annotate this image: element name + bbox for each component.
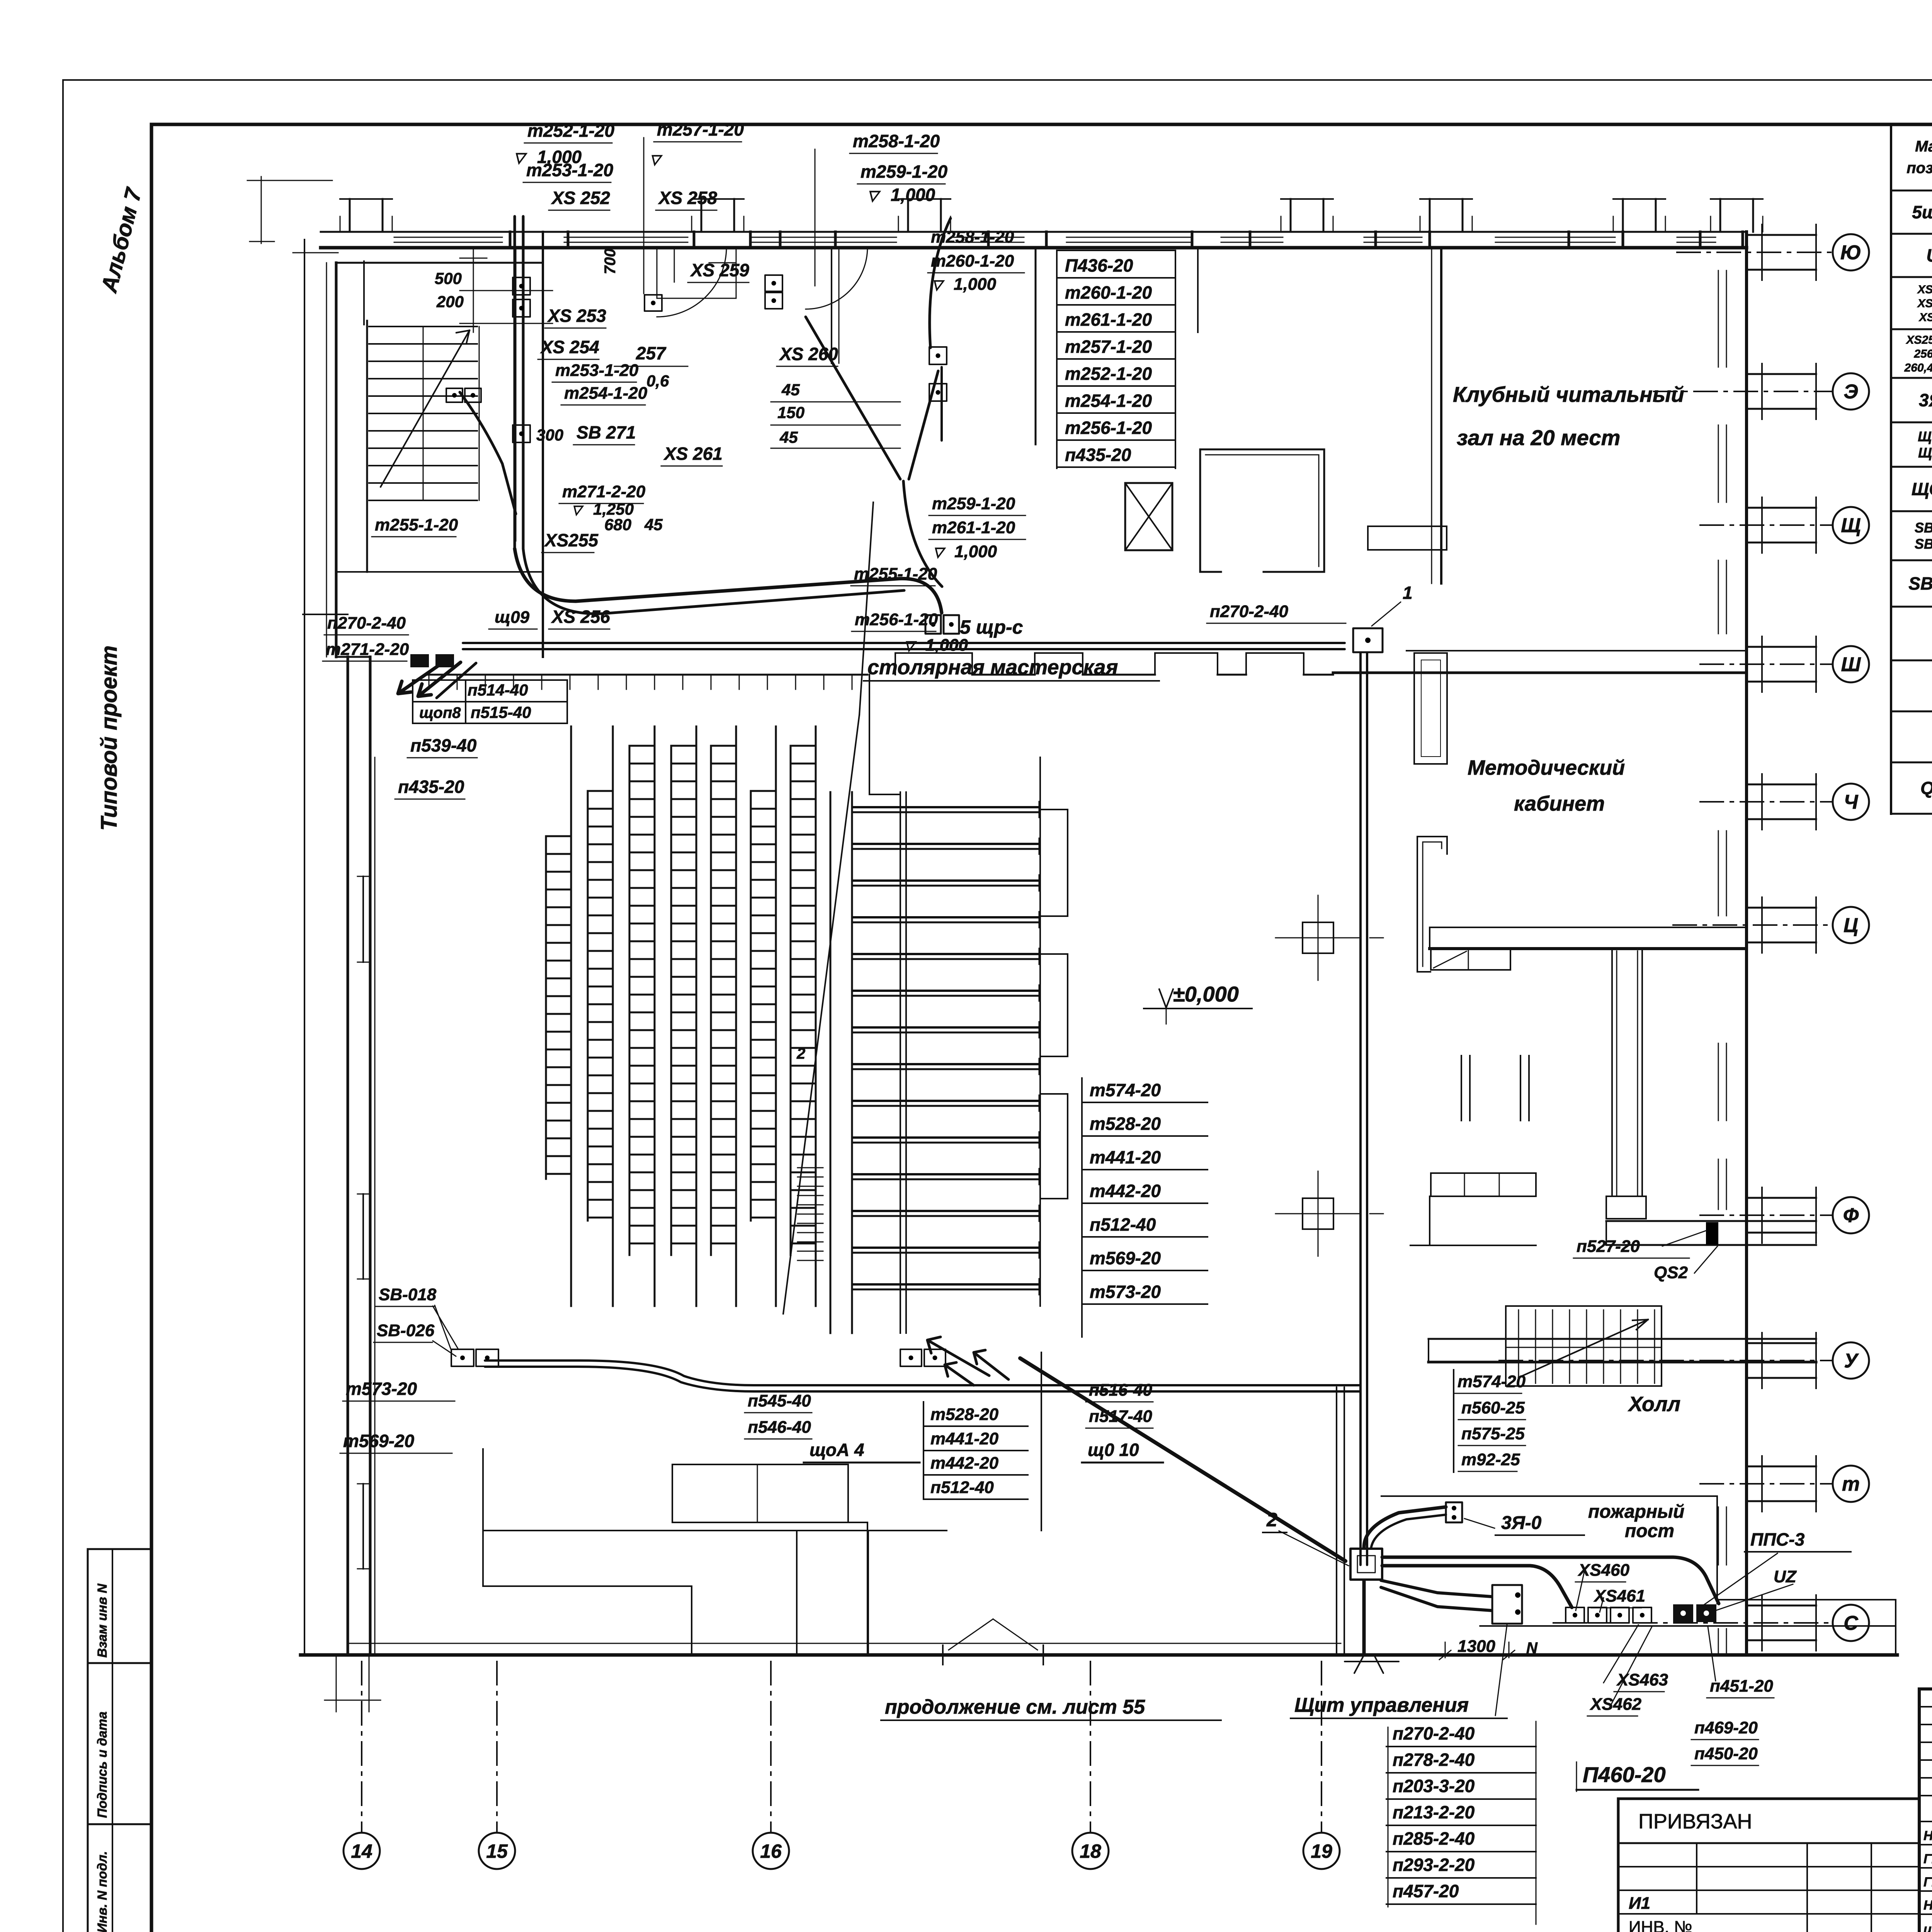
svg-text:Щит управления: Щит управления <box>1294 1694 1469 1716</box>
svg-text:п451-20: п451-20 <box>1710 1677 1773 1696</box>
svg-text:XS 253,: XS 253, <box>1917 283 1932 296</box>
svg-text:700: 700 <box>602 248 619 274</box>
svg-text:т257-1-20: т257-1-20 <box>657 119 744 139</box>
svg-text:SB-018: SB-018 <box>1915 520 1932 536</box>
svg-text:±0,000: ±0,000 <box>1173 982 1239 1006</box>
svg-text:ЩО-9,: ЩО-9, <box>1918 429 1932 444</box>
svg-text:т252-1-20: т252-1-20 <box>1065 364 1152 384</box>
svg-text:XS 252: XS 252 <box>551 188 610 208</box>
svg-text:UZ: UZ <box>1926 245 1932 265</box>
svg-text:3Я-0: 3Я-0 <box>1501 1513 1542 1533</box>
svg-text:1: 1 <box>1403 583 1413 603</box>
svg-text:ГИП: ГИП <box>1923 1852 1932 1866</box>
svg-text:257: 257 <box>636 343 667 363</box>
svg-text:т569-20: т569-20 <box>1090 1248 1161 1268</box>
svg-text:0,6: 0,6 <box>646 372 669 390</box>
svg-text:Ю: Ю <box>1840 241 1861 264</box>
svg-text:п469-20: п469-20 <box>1694 1718 1758 1737</box>
svg-text:Нач.отд.: Нач.отд. <box>1923 1828 1932 1843</box>
svg-text:т574-20: т574-20 <box>1458 1372 1526 1391</box>
svg-text:п270-2-40: п270-2-40 <box>1393 1723 1475 1743</box>
svg-text:инженер: инженер <box>1923 1922 1932 1932</box>
svg-text:п435-20: п435-20 <box>1065 445 1131 465</box>
svg-text:С: С <box>1844 1612 1859 1634</box>
svg-text:т261-1-20: т261-1-20 <box>932 518 1015 537</box>
svg-text:т569-20: т569-20 <box>343 1431 415 1451</box>
svg-text:5 щр-с: 5 щр-с <box>960 616 1023 638</box>
svg-text:ЩОА4: ЩОА4 <box>1912 479 1932 499</box>
svg-text:SB-026: SB-026 <box>377 1321 435 1340</box>
svg-text:XS 256: XS 256 <box>551 607 610 627</box>
svg-text:SB 271: SB 271 <box>577 422 636 442</box>
svg-text:Ш: Ш <box>1841 653 1861 676</box>
svg-text:XS 258: XS 258 <box>658 188 717 208</box>
svg-text:т271-2-20: т271-2-20 <box>326 640 409 659</box>
svg-text:XS460: XS460 <box>1577 1561 1630 1580</box>
svg-text:щ0 10: щ0 10 <box>1088 1440 1139 1460</box>
svg-text:п450-20: п450-20 <box>1694 1744 1758 1763</box>
svg-text:т442-20: т442-20 <box>930 1454 999 1473</box>
svg-text:ИНВ. №: ИНВ. № <box>1629 1918 1692 1932</box>
svg-text:15: 15 <box>486 1840 508 1862</box>
svg-text:ПРИВЯЗАН: ПРИВЯЗАН <box>1638 1810 1752 1833</box>
svg-text:Альбом 7: Альбом 7 <box>96 185 147 296</box>
svg-text:т252-1-20: т252-1-20 <box>527 121 614 141</box>
svg-text:Типовой проект: Типовой проект <box>97 645 122 831</box>
svg-text:Марка: Марка <box>1915 138 1932 155</box>
svg-text:п515-40: п515-40 <box>471 703 531 721</box>
svg-text:П436-20: П436-20 <box>1065 255 1133 276</box>
svg-text:300: 300 <box>536 426 563 444</box>
svg-text:щоА 4: щоА 4 <box>810 1440 864 1460</box>
svg-text:т255-1-20: т255-1-20 <box>854 565 937 583</box>
svg-text:т442-20: т442-20 <box>1090 1181 1161 1201</box>
svg-text:столярная мастерская: столярная мастерская <box>867 656 1118 679</box>
svg-text:m: m <box>1842 1473 1860 1495</box>
svg-text:п270-2-40: п270-2-40 <box>327 614 406 633</box>
svg-text:Холл: Холл <box>1628 1393 1680 1416</box>
svg-text:п517-40: п517-40 <box>1089 1407 1152 1426</box>
svg-text:260,460÷463: 260,460÷463 <box>1904 362 1932 374</box>
svg-text:Щ: Щ <box>1841 514 1861 537</box>
svg-text:45: 45 <box>644 515 663 534</box>
svg-text:XS461: XS461 <box>1593 1587 1645 1605</box>
svg-text:ППС-3: ППС-3 <box>1750 1529 1805 1549</box>
svg-text:продолжение см. лист 55: продолжение см. лист 55 <box>885 1696 1145 1718</box>
svg-text:п213-2-20: п213-2-20 <box>1393 1802 1475 1822</box>
svg-text:т258-1-20: т258-1-20 <box>853 131 940 151</box>
svg-text:XS462: XS462 <box>1589 1695 1642 1714</box>
svg-text:т92-25: т92-25 <box>1461 1450 1520 1469</box>
svg-text:т271-2-20: т271-2-20 <box>562 482 646 501</box>
svg-text:п514-40: п514-40 <box>468 681 528 699</box>
svg-text:200: 200 <box>436 293 464 311</box>
svg-text:т528-20: т528-20 <box>1090 1114 1161 1134</box>
svg-text:1,000: 1,000 <box>954 275 997 294</box>
svg-text:16: 16 <box>760 1840 782 1862</box>
svg-text:XS 254: XS 254 <box>540 337 599 357</box>
svg-text:▽: ▽ <box>933 545 946 560</box>
svg-text:п560-25: п560-25 <box>1461 1398 1525 1417</box>
svg-text:п457-20: п457-20 <box>1393 1881 1459 1901</box>
svg-text:▽: ▽ <box>932 277 945 292</box>
svg-text:т255-1-20: т255-1-20 <box>375 515 458 534</box>
svg-text:Ц: Ц <box>1844 914 1858 937</box>
svg-text:п527-20: п527-20 <box>1577 1237 1640 1256</box>
svg-text:▽: ▽ <box>514 150 527 165</box>
svg-text:пост: пост <box>1625 1521 1674 1541</box>
svg-text:п545-40: п545-40 <box>748 1391 811 1410</box>
svg-text:Ф: Ф <box>1843 1204 1859 1227</box>
svg-text:позиция: позиция <box>1906 160 1932 177</box>
svg-text:QS2: QS2 <box>1654 1263 1688 1282</box>
svg-text:Подпись и дата: Подпись и дата <box>95 1711 110 1818</box>
svg-text:т253-1-20: т253-1-20 <box>555 361 639 380</box>
svg-text:т257-1-20: т257-1-20 <box>1065 337 1152 357</box>
svg-text:680: 680 <box>604 515 631 534</box>
svg-text:п285-2-40: п285-2-40 <box>1393 1828 1475 1849</box>
svg-text:т260-1-20: т260-1-20 <box>1065 282 1152 303</box>
svg-text:SB-026: SB-026 <box>1915 536 1932 552</box>
svg-text:45: 45 <box>781 381 800 399</box>
svg-text:п546-40: п546-40 <box>748 1418 811 1437</box>
svg-text:150: 150 <box>777 403 804 422</box>
svg-text:щ09: щ09 <box>495 608 530 627</box>
svg-text:кабинет: кабинет <box>1514 792 1605 815</box>
svg-text:п512-40: п512-40 <box>930 1478 994 1497</box>
svg-text:XS 261: XS 261 <box>663 444 723 464</box>
svg-text:Методический: Методический <box>1468 756 1625 779</box>
svg-text:Нач.гр.: Нач.гр. <box>1923 1898 1932 1913</box>
svg-text:1300: 1300 <box>1458 1637 1495 1656</box>
svg-text:XS255: XS255 <box>544 530 599 550</box>
svg-text:QS2: QS2 <box>1920 778 1932 798</box>
svg-text:п435-20: п435-20 <box>398 777 464 797</box>
svg-text:▽: ▽ <box>572 503 584 517</box>
svg-text:18: 18 <box>1080 1840 1101 1862</box>
svg-text:И1: И1 <box>1629 1894 1650 1913</box>
svg-text:т258-1-20: т258-1-20 <box>931 228 1014 247</box>
svg-text:XS 261: XS 261 <box>1918 311 1932 324</box>
svg-text:т253-1-20: т253-1-20 <box>526 160 613 180</box>
svg-text:XS 259: XS 259 <box>690 260 749 280</box>
svg-text:5шр-с: 5шр-с <box>1912 202 1932 222</box>
svg-text:Взам инв N: Взам инв N <box>95 1583 110 1658</box>
svg-text:п516-40: п516-40 <box>1089 1381 1152 1400</box>
svg-text:п539-40: п539-40 <box>410 735 477 755</box>
svg-text:зал на 20 мест: зал на 20 мест <box>1457 425 1620 450</box>
svg-text:500: 500 <box>435 269 462 287</box>
svg-text:п512-40: п512-40 <box>1090 1214 1156 1235</box>
svg-text:т254-1-20: т254-1-20 <box>564 384 648 403</box>
svg-text:UZ: UZ <box>1774 1567 1797 1586</box>
svg-text:п278-2-40: п278-2-40 <box>1393 1750 1475 1770</box>
svg-text:т441-20: т441-20 <box>1090 1147 1161 1167</box>
svg-text:У: У <box>1844 1350 1859 1372</box>
svg-text:ГИП: ГИП <box>1923 1875 1932 1889</box>
svg-text:XS252,254÷: XS252,254÷ <box>1906 334 1932 347</box>
svg-text:т256-1-20: т256-1-20 <box>1065 418 1152 438</box>
svg-text:т254-1-20: т254-1-20 <box>1065 391 1152 411</box>
svg-text:XS 259,: XS 259, <box>1917 297 1932 310</box>
svg-text:щоп8: щоп8 <box>419 704 461 721</box>
svg-text:т259-1-20: т259-1-20 <box>932 494 1015 513</box>
svg-text:т260-1-20: т260-1-20 <box>931 252 1014 270</box>
svg-text:1,000: 1,000 <box>891 185 935 205</box>
svg-text:т261-1-20: т261-1-20 <box>1065 310 1152 330</box>
svg-text:т573-20: т573-20 <box>346 1379 417 1399</box>
svg-text:XS 253: XS 253 <box>547 306 606 326</box>
svg-text:ЩО10: ЩО10 <box>1918 445 1932 461</box>
svg-text:3Я-0: 3Я-0 <box>1919 390 1932 410</box>
svg-text:1,000: 1,000 <box>925 636 968 655</box>
svg-text:Инв. N подл.: Инв. N подл. <box>95 1851 110 1932</box>
svg-text:п575-25: п575-25 <box>1461 1424 1525 1443</box>
svg-text:▽: ▽ <box>867 187 881 203</box>
svg-text:XS 260: XS 260 <box>779 344 838 364</box>
svg-text:▽: ▽ <box>904 638 917 653</box>
svg-text:SB-018: SB-018 <box>379 1285 437 1304</box>
svg-text:т441-20: т441-20 <box>930 1429 999 1448</box>
svg-text:SB 271: SB 271 <box>1908 573 1932 594</box>
svg-text:14: 14 <box>351 1840 372 1862</box>
svg-text:▽: ▽ <box>650 152 663 167</box>
svg-text:пожарный: пожарный <box>1588 1502 1684 1522</box>
svg-text:256, 258,: 256, 258, <box>1913 348 1932 361</box>
svg-text:т573-20: т573-20 <box>1090 1282 1161 1302</box>
svg-text:т259-1-20: т259-1-20 <box>861 162 947 182</box>
svg-text:п293-2-20: п293-2-20 <box>1393 1855 1475 1875</box>
svg-text:т574-20: т574-20 <box>1090 1080 1161 1100</box>
svg-text:19: 19 <box>1311 1840 1332 1862</box>
svg-text:т256-1-20: т256-1-20 <box>855 610 938 629</box>
svg-text:Ч: Ч <box>1844 791 1859 813</box>
svg-text:2: 2 <box>796 1045 805 1062</box>
svg-text:1,000: 1,000 <box>954 542 997 561</box>
svg-text:Клубный читальный: Клубный читальный <box>1453 382 1684 406</box>
svg-text:т528-20: т528-20 <box>930 1405 999 1424</box>
svg-text:п203-3-20: п203-3-20 <box>1393 1776 1475 1796</box>
svg-text:Э: Э <box>1844 381 1858 403</box>
svg-text:2: 2 <box>1266 1509 1277 1531</box>
svg-text:П460-20: П460-20 <box>1583 1762 1666 1787</box>
svg-text:N: N <box>1526 1639 1538 1656</box>
svg-text:п270-2-40: п270-2-40 <box>1210 602 1289 621</box>
svg-text:45: 45 <box>779 428 798 446</box>
